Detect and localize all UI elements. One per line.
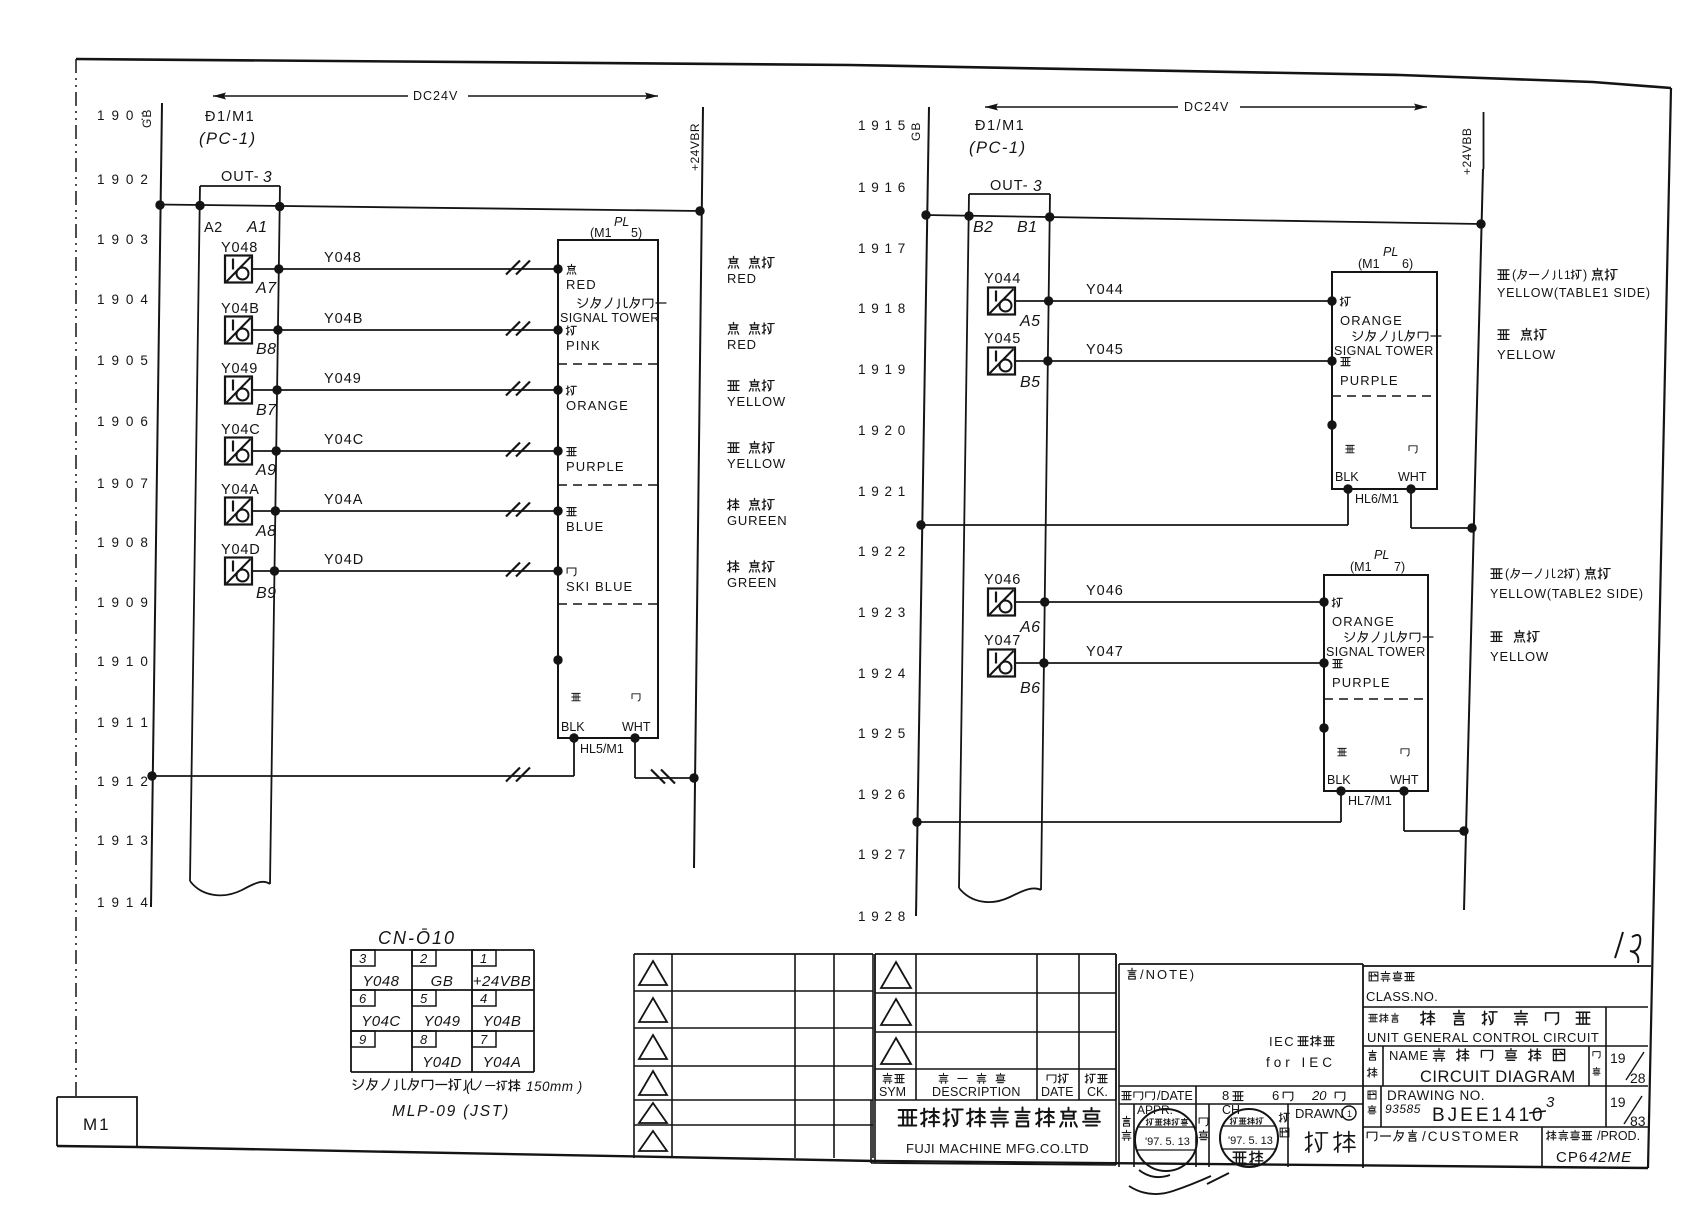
svg-text:WHT: WHT <box>1390 773 1419 787</box>
node +24VBR (left return rail) <box>694 107 703 868</box>
tower BLK pin <box>1346 445 1354 452</box>
title block: CUSTOMER cell <box>1367 1130 1416 1141</box>
svg-text:FUJI MACHINE MFG.CO.LTD: FUJI MACHINE MFG.CO.LTD <box>906 1141 1089 1156</box>
svg-text:1 9 2 6: 1 9 2 6 <box>858 787 906 802</box>
svg-text:Y04B: Y04B <box>221 301 260 317</box>
revision table right <box>875 953 1116 955</box>
DC24V dimension arrow (right) <box>985 106 1178 108</box>
svg-text:PURPLE: PURPLE <box>1340 373 1399 388</box>
svg-text:(: ( <box>1512 268 1517 282</box>
wire GB bus to +24VBB (row 1916) <box>925 215 1481 224</box>
title block: unit name cell <box>1369 1013 1399 1022</box>
CN-010 pin 3 Y048 <box>351 950 375 966</box>
wire Y047 to signal tower <box>1015 662 1324 664</box>
svg-text:ORANGE: ORANGE <box>1332 614 1395 629</box>
annotation GUREEN lamp <box>728 499 739 510</box>
svg-text:YELLOW(TABLE2 SIDE): YELLOW(TABLE2 SIDE) <box>1490 587 1644 601</box>
svg-text:1 9 0 :: 1 9 0 : <box>97 108 146 123</box>
svg-text:RED: RED <box>566 277 597 292</box>
svg-text:Y048: Y048 <box>221 240 258 256</box>
svg-text:8: 8 <box>420 1032 428 1047</box>
svg-text:+24VBB: +24VBB <box>473 973 531 990</box>
svg-text:HL7/M1: HL7/M1 <box>1348 794 1392 808</box>
svg-text:DRAWING NO.: DRAWING NO. <box>1387 1088 1485 1103</box>
cell CHECKED with stamp <box>1208 1104 1210 1167</box>
tower pin ORANGE <box>1327 296 1336 305</box>
svg-text:(M1: (M1 <box>1350 560 1372 574</box>
svg-text:OUT-: OUT- <box>990 178 1029 194</box>
svg-text:PINK: PINK <box>566 338 601 353</box>
svg-text:2: 2 <box>1557 567 1564 581</box>
svg-text:1 9 1 9: 1 9 1 9 <box>858 362 906 377</box>
note: signal tower side lead wire 150mm (jp handwritten) <box>353 1079 475 1091</box>
svg-text:42ME: 42ME <box>1589 1149 1632 1166</box>
svg-text:8: 8 <box>1222 1088 1229 1103</box>
svg-text:Y04C: Y04C <box>221 422 260 438</box>
tower internal junction <box>553 655 562 664</box>
svg-text:1 9 1 0: 1 9 1 0 <box>97 654 149 669</box>
DC24V dimension arrow (left) <box>213 95 408 97</box>
svg-text:BLK: BLK <box>1335 470 1359 484</box>
wire BLK HL7 return to GB <box>1340 791 1342 822</box>
cell APPR with stamp <box>1133 1104 1135 1167</box>
svg-text:): ) <box>1583 268 1587 282</box>
svg-text:YELLOW(TABLE1 SIDE): YELLOW(TABLE1 SIDE) <box>1497 286 1651 300</box>
wire Y044 to signal tower <box>1015 300 1332 302</box>
svg-text:(PC-1): (PC-1) <box>969 139 1027 157</box>
svg-text:1 9 1 2: 1 9 1 2 <box>97 774 149 789</box>
svg-text:B8: B8 <box>256 341 277 358</box>
wire BLK HL6 return to GB <box>1347 489 1349 525</box>
wire Y04B to signal tower <box>252 329 558 331</box>
svg-text:1: 1 <box>1347 1109 1352 1119</box>
wire Y046 to signal tower <box>1015 601 1324 603</box>
svg-text:(M1: (M1 <box>590 226 612 240</box>
svg-text:GB: GB <box>140 109 154 128</box>
svg-text:WHT: WHT <box>1398 470 1427 484</box>
svg-text:1: 1 <box>1564 268 1571 282</box>
svg-text:(: ( <box>1505 567 1510 581</box>
tower pin BLUE <box>553 506 562 515</box>
svg-text:Y04C: Y04C <box>361 1013 401 1030</box>
cell DATE (year/month/day) <box>1122 1092 1155 1100</box>
svg-text:+24VBR: +24VBR <box>688 123 702 171</box>
revision triangle L4 <box>639 1071 667 1095</box>
svg-text:SIGNAL TOWER: SIGNAL TOWER <box>1334 344 1434 358</box>
approval strip <box>1119 1085 1363 1087</box>
M1 zone box bottom-left <box>57 1097 137 1146</box>
signal tower HL6/M1 (PL M1-6) <box>1332 272 1437 489</box>
svg-text:SIGNAL TOWER: SIGNAL TOWER <box>560 311 660 325</box>
revision triangle L6 <box>639 1131 667 1151</box>
svg-text:Y04D: Y04D <box>221 542 260 558</box>
svg-text:SYM: SYM <box>879 1085 906 1099</box>
bottom border <box>57 1146 1648 1168</box>
svg-text:B1: B1 <box>1017 219 1038 236</box>
svg-text:CIRCUIT DIAGRAM: CIRCUIT DIAGRAM <box>1420 1068 1576 1086</box>
svg-text:1 9 0 2: 1 9 0 2 <box>97 172 149 187</box>
annotation YELLOW lamp <box>728 381 739 391</box>
svg-text:6: 6 <box>1272 1088 1279 1103</box>
svg-text:Đ1/M1: Đ1/M1 <box>205 109 255 125</box>
header DATE <box>1047 1074 1068 1083</box>
annotation RED lamp <box>728 322 738 334</box>
svg-text:CLASS.NO.: CLASS.NO. <box>1366 989 1438 1004</box>
svg-text:HL6/M1: HL6/M1 <box>1355 492 1399 506</box>
svg-text:A9: A9 <box>255 462 277 479</box>
wire Y04C to signal tower <box>252 450 558 452</box>
svg-text:MLP-09 (JST): MLP-09 (JST) <box>392 1103 510 1120</box>
svg-text:B7: B7 <box>256 402 277 419</box>
svg-text:1 9 0 7: 1 9 0 7 <box>97 476 149 491</box>
svg-text:B5: B5 <box>1020 374 1041 391</box>
node GB (right power rail) <box>916 107 929 916</box>
tower section dashed separators <box>558 363 658 365</box>
svg-text:1 9 1 5: 1 9 1 5 <box>858 118 906 133</box>
approval stamp 2 <box>1220 1109 1278 1167</box>
svg-text:Y048: Y048 <box>324 250 362 266</box>
svg-text:1 9 0 4: 1 9 0 4 <box>97 292 149 307</box>
production no cell <box>1546 1130 1591 1140</box>
svg-text:SIGNAL TOWER: SIGNAL TOWER <box>1326 645 1426 659</box>
svg-text:Y04B: Y04B <box>483 1013 522 1030</box>
svg-text:2: 2 <box>419 951 428 966</box>
svg-text:WHT: WHT <box>622 720 651 734</box>
wire Y04A to signal tower <box>252 510 558 512</box>
svg-text:Y049: Y049 <box>423 1013 460 1030</box>
svg-text:YELLOW: YELLOW <box>727 394 786 409</box>
wire WHT HL6 return to +24VBB <box>1410 489 1412 528</box>
svg-text:1 9 1 6: 1 9 1 6 <box>858 180 906 195</box>
revision triangle R3 <box>881 1038 911 1064</box>
tower BLK pin <box>572 693 580 700</box>
svg-text:NAME: NAME <box>1389 1048 1429 1063</box>
tower pin SKI BLUE <box>553 566 562 575</box>
svg-text:PURPLE: PURPLE <box>566 459 625 474</box>
annotation GREEN lamp <box>728 561 739 572</box>
svg-text:93585: 93585 <box>1385 1102 1421 1116</box>
approval stamp 1 <box>1135 1109 1197 1171</box>
signal tower HL7/M1 (PL M1-7) <box>1324 575 1428 791</box>
svg-text:A5: A5 <box>1019 313 1041 330</box>
svg-text:YELLOW: YELLOW <box>727 456 786 471</box>
svg-text:B6: B6 <box>1020 680 1041 697</box>
svg-text:ORANGE: ORANGE <box>566 398 629 413</box>
svg-text:1 9 2 0: 1 9 2 0 <box>858 423 906 438</box>
wire Y045 to signal tower <box>1015 360 1332 362</box>
signal tower HL5/M1 (PL M1-5) <box>558 240 658 738</box>
svg-text:19: 19 <box>1610 1050 1626 1066</box>
svg-text:YELLOW: YELLOW <box>1490 649 1549 664</box>
svg-text:Y04D: Y04D <box>324 552 364 568</box>
svg-text:M1: M1 <box>83 1115 111 1134</box>
svg-text:3: 3 <box>263 169 272 186</box>
CN-010 pin 4 Y04B <box>472 990 496 1006</box>
svg-text:OUT-: OUT- <box>221 169 260 185</box>
svg-text:+24VBB: +24VBB <box>1460 128 1474 175</box>
svg-text:CN-Ō10: CN-Ō10 <box>378 928 456 948</box>
svg-text:1 9 0 8: 1 9 0 8 <box>97 535 149 550</box>
svg-text:Y047: Y047 <box>984 633 1021 649</box>
svg-text:28: 28 <box>1630 1070 1646 1086</box>
tower BLK pin <box>1338 748 1346 755</box>
tower WHT pin <box>632 694 640 701</box>
svg-text:CK.: CK. <box>1087 1085 1108 1099</box>
svg-text:3: 3 <box>1546 1094 1555 1111</box>
svg-text:B9: B9 <box>256 585 277 602</box>
svg-text:19: 19 <box>1610 1094 1626 1110</box>
svg-text:1 9 2 8: 1 9 2 8 <box>858 909 906 924</box>
svg-text:/CUSTOMER: /CUSTOMER <box>1422 1129 1521 1144</box>
svg-text:1 9 1 7: 1 9 1 7 <box>858 241 906 256</box>
revision triangle R2 <box>881 999 911 1025</box>
svg-text:1 9 0 6: 1 9 0 6 <box>97 414 149 429</box>
svg-text:DATE: DATE <box>1041 1085 1073 1099</box>
cell DRAWN <box>1287 1104 1289 1167</box>
header SYM <box>883 1073 904 1083</box>
node +24VBB (right return rail) <box>1464 169 1483 910</box>
svg-text:1 9 1 3: 1 9 1 3 <box>97 833 149 848</box>
svg-text:A8: A8 <box>255 523 277 540</box>
svg-text:'97. 5. 13: '97. 5. 13 <box>1228 1135 1273 1147</box>
node GB (left power rail) <box>151 103 162 907</box>
tower pin PINK <box>553 325 562 334</box>
svg-text:Y046: Y046 <box>984 572 1021 588</box>
svg-text:/PROD.: /PROD. <box>1597 1129 1640 1143</box>
svg-text:Y04D: Y04D <box>422 1054 462 1071</box>
wire Y049 to signal tower <box>252 389 558 391</box>
title block: NOTE cell <box>1119 963 1363 965</box>
svg-text:for IEC: for IEC <box>1266 1055 1336 1070</box>
tower WHT pin <box>1409 446 1417 453</box>
svg-text:GUREEN: GUREEN <box>727 513 787 528</box>
svg-text:5: 5 <box>420 991 428 1006</box>
annotation RED lamp <box>728 256 738 268</box>
CN-010 pin 8 Y04D <box>412 1031 436 1047</box>
break symbol at bottom of OUT-3 columns <box>190 881 270 895</box>
wire GB bus to +24VBR (row 1902) <box>158 205 701 212</box>
svg-text:1: 1 <box>480 951 487 966</box>
tower pin PURPLE <box>1327 356 1336 365</box>
wire Y04D to signal tower <box>252 570 558 572</box>
svg-text:RED: RED <box>727 337 757 352</box>
revision triangle L2 <box>639 998 667 1022</box>
revision triangle L1 <box>639 961 667 985</box>
svg-text:DC24V: DC24V <box>1184 100 1229 114</box>
svg-text:Y049: Y049 <box>324 371 362 387</box>
CN-010 pin 9 <box>351 1031 375 1047</box>
svg-text:Y046: Y046 <box>1086 583 1124 599</box>
svg-text:DESCRIPTION: DESCRIPTION <box>932 1085 1021 1099</box>
header DESCRIPTION <box>939 1073 1005 1083</box>
CN-010 pin 5 Y049 <box>412 990 436 1006</box>
revision triangle L5 <box>639 1103 667 1123</box>
svg-text:6): 6) <box>1402 257 1413 271</box>
svg-text:Y044: Y044 <box>984 271 1021 287</box>
tower WHT pin <box>1401 749 1409 756</box>
tower pin PURPLE <box>553 446 562 455</box>
svg-text:1 9 0 3: 1 9 0 3 <box>97 232 149 247</box>
tower pin PURPLE <box>1319 658 1328 667</box>
svg-text:Y044: Y044 <box>1086 282 1124 298</box>
svg-text:Y047: Y047 <box>1086 644 1124 660</box>
svg-text:B2: B2 <box>973 219 994 236</box>
svg-text:BLUE: BLUE <box>566 519 604 534</box>
svg-text:DC24V: DC24V <box>413 89 458 103</box>
sheet border frame <box>76 59 1671 88</box>
svg-text:1 9 2 7: 1 9 2 7 <box>858 847 906 862</box>
svg-text:1 9 1 8: 1 9 1 8 <box>858 301 906 316</box>
wire WHT return to +24VBR <box>634 738 636 778</box>
svg-text:4: 4 <box>480 991 487 1006</box>
title block: DRAWING NO cell <box>1368 1091 1376 1114</box>
svg-text:Đ1/M1: Đ1/M1 <box>975 118 1025 134</box>
tower pin ORANGE <box>553 385 562 394</box>
svg-text:Y04A: Y04A <box>324 492 363 508</box>
svg-text:1 9 2 3: 1 9 2 3 <box>858 605 906 620</box>
annotation YELLOW blink (1) <box>1498 330 1509 340</box>
svg-text:A2: A2 <box>204 220 223 236</box>
svg-text:1 9 2 4: 1 9 2 4 <box>858 666 906 681</box>
company cell FUJI MACHINE MFG.CO.LTD <box>870 1100 872 1163</box>
svg-text:BLK: BLK <box>1327 773 1351 787</box>
annotation YELLOW lamp <box>728 443 739 453</box>
annotation YELLOW(TABLE1 SIDE) <box>1498 270 1509 280</box>
svg-text:3: 3 <box>359 951 367 966</box>
svg-text:SKI BLUE: SKI BLUE <box>566 579 633 594</box>
svg-text:/DATE: /DATE <box>1157 1089 1193 1103</box>
svg-text:Y049: Y049 <box>221 361 258 377</box>
svg-text:(M1: (M1 <box>1358 257 1380 271</box>
wire WHT HL7 return to +24VBB <box>1403 791 1405 831</box>
svg-text:Y04B: Y04B <box>324 311 363 327</box>
svg-text:150mm ): 150mm ) <box>526 1079 583 1094</box>
svg-text:UNIT GENERAL CONTROL CIRCUIT: UNIT GENERAL CONTROL CIRCUIT <box>1367 1030 1599 1045</box>
svg-text:20: 20 <box>1311 1088 1327 1103</box>
svg-text:GB: GB <box>431 973 454 990</box>
svg-text:RED: RED <box>727 271 757 286</box>
svg-text:YELLOW: YELLOW <box>1497 347 1556 362</box>
break symbol at bottom of right OUT-3 <box>959 888 1041 902</box>
svg-text:GB: GB <box>909 122 923 141</box>
svg-text:A7: A7 <box>255 280 277 297</box>
svg-text:GREEN: GREEN <box>727 575 777 590</box>
revision triangle L3 <box>639 1035 667 1059</box>
svg-text:1 9 0 9: 1 9 0 9 <box>97 595 149 610</box>
header CK <box>1085 1074 1107 1083</box>
tower pin RED <box>553 264 562 273</box>
svg-text:DRAWN: DRAWN <box>1295 1106 1344 1121</box>
svg-text:'97. 5. 13: '97. 5. 13 <box>1145 1136 1190 1148</box>
svg-text:IEC: IEC <box>1269 1034 1295 1049</box>
svg-text:0: 0 <box>1532 1105 1543 1126</box>
svg-text:ORANGE: ORANGE <box>1340 313 1403 328</box>
title block: NAME cell <box>1367 1050 1377 1077</box>
svg-text:1 9 2 2: 1 9 2 2 <box>858 544 906 559</box>
wire BLK return to GB <box>573 738 575 776</box>
svg-text:PL: PL <box>1383 245 1398 259</box>
annotation YELLOW blink (2) <box>1491 632 1502 642</box>
svg-text:1 9 1 4: 1 9 1 4 <box>97 895 149 910</box>
svg-text:PL: PL <box>614 215 629 229</box>
CN-010 pin 6 Y04C <box>351 990 375 1006</box>
annotation YELLOW(TABLE2 SIDE) <box>1491 569 1502 579</box>
tower pin ORANGE <box>1319 597 1328 606</box>
svg-text:A6: A6 <box>1019 619 1041 636</box>
svg-text:Y045: Y045 <box>1086 342 1124 358</box>
revision table left <box>634 953 873 955</box>
revision triangle R1 <box>881 962 911 988</box>
title block: CLASS.NO cell <box>1363 965 1651 967</box>
CN-010 pin 1 +24VBB <box>472 950 496 966</box>
svg-text:PURPLE: PURPLE <box>1332 675 1391 690</box>
svg-text:1 9 0 5: 1 9 0 5 <box>97 353 149 368</box>
svg-text:7): 7) <box>1394 560 1405 574</box>
svg-text:Y04C: Y04C <box>324 432 364 448</box>
svg-text:A1: A1 <box>246 219 268 236</box>
svg-text:HL5/M1: HL5/M1 <box>580 742 624 756</box>
svg-text:BJEE141: BJEE141 <box>1432 1105 1532 1126</box>
CN-010 pin 2 GB <box>412 950 436 966</box>
label signal tower (jp) <box>578 297 666 308</box>
svg-text:Y04A: Y04A <box>221 482 260 498</box>
handwritten page mark 19 <box>1615 932 1640 963</box>
drawn by (handwritten) <box>1305 1131 1355 1152</box>
svg-text:Y04A: Y04A <box>483 1054 522 1071</box>
svg-text:CP6: CP6 <box>1556 1149 1588 1166</box>
svg-text:3: 3 <box>1033 178 1042 195</box>
svg-text:): ) <box>1576 567 1580 581</box>
svg-text:5): 5) <box>631 226 642 240</box>
svg-text:PL: PL <box>1374 548 1389 562</box>
wire Y048 to signal tower <box>252 268 558 270</box>
svg-text:/NOTE): /NOTE) <box>1140 967 1196 982</box>
svg-text:9: 9 <box>359 1032 366 1047</box>
CN-010 pin 7 Y04A <box>472 1031 496 1047</box>
svg-text:1 9 2 5: 1 9 2 5 <box>858 726 906 741</box>
svg-text:1 9 1 1: 1 9 1 1 <box>97 715 149 730</box>
svg-text:6: 6 <box>359 991 367 1006</box>
svg-text:Y045: Y045 <box>984 331 1021 347</box>
svg-text:Y048: Y048 <box>362 973 399 990</box>
svg-text:7: 7 <box>480 1032 488 1047</box>
svg-text:1 9 2 1: 1 9 2 1 <box>858 484 906 499</box>
svg-text:BLK: BLK <box>561 720 585 734</box>
svg-text:(PC-1): (PC-1) <box>199 130 257 148</box>
